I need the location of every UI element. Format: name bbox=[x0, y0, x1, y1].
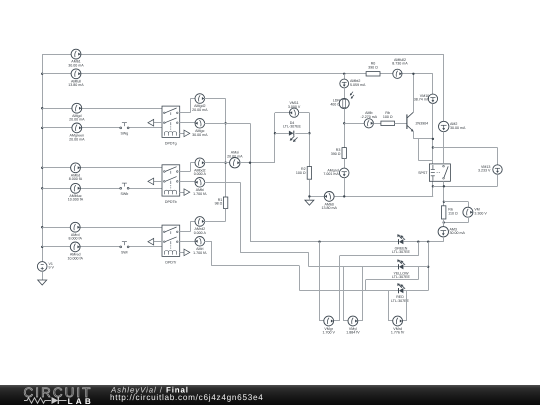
svg-text:LTL-307EE: LTL-307EE bbox=[392, 275, 411, 279]
svg-text:100 Ω: 100 Ω bbox=[383, 115, 393, 119]
svg-text:8.000 fA: 8.000 fA bbox=[69, 237, 83, 241]
svg-text:SPST: SPST bbox=[418, 171, 428, 175]
svg-text:9 V: 9 V bbox=[49, 266, 55, 270]
svg-text:0.000 A: 0.000 A bbox=[194, 231, 207, 235]
svg-text:1.776 fV: 1.776 fV bbox=[391, 331, 405, 335]
svg-text:390 Ω: 390 Ω bbox=[331, 152, 341, 156]
svg-text:20.00 mA: 20.00 mA bbox=[69, 118, 85, 122]
svg-text:30.00 mA: 30.00 mA bbox=[192, 133, 208, 137]
svg-text:3.233 V: 3.233 V bbox=[478, 169, 491, 173]
svg-text:20.00 mA: 20.00 mA bbox=[227, 154, 243, 158]
svg-text:10.000 fA: 10.000 fA bbox=[68, 198, 84, 202]
svg-text:DPDTr: DPDTr bbox=[165, 260, 177, 264]
svg-text:20.00 mA: 20.00 mA bbox=[192, 108, 208, 112]
svg-text:3.300 V: 3.300 V bbox=[474, 212, 487, 216]
svg-text:30.00 mA: 30.00 mA bbox=[450, 231, 466, 235]
svg-text:30.00 mA: 30.00 mA bbox=[68, 64, 84, 68]
svg-text:-2.270 mA: -2.270 mA bbox=[361, 115, 378, 119]
svg-text:3.000 V: 3.000 V bbox=[288, 105, 301, 109]
svg-text:SWg: SWg bbox=[121, 132, 129, 136]
svg-text:LAB: LAB bbox=[68, 396, 94, 405]
svg-text:DPDTg: DPDTg bbox=[165, 141, 177, 145]
svg-text:13.80 mA: 13.80 mA bbox=[68, 83, 84, 87]
svg-text:30.00 mA: 30.00 mA bbox=[450, 126, 466, 130]
svg-text:10.000 fA: 10.000 fA bbox=[68, 256, 84, 260]
svg-text:8.000 fA: 8.000 fA bbox=[69, 177, 83, 181]
svg-text:SWr: SWr bbox=[121, 251, 129, 255]
svg-text:400 Ω: 400 Ω bbox=[330, 102, 340, 106]
svg-text:http://circuitlab.com/c6j4z4gn: http://circuitlab.com/c6j4z4gn653e4 bbox=[110, 393, 264, 402]
svg-text:38.74 mV: 38.74 mV bbox=[414, 98, 430, 102]
svg-text:390 Ω: 390 Ω bbox=[368, 66, 378, 70]
svg-text:8.730 mA: 8.730 mA bbox=[392, 62, 408, 66]
svg-text:SWb: SWb bbox=[121, 192, 129, 196]
svg-text:LTL-307EE: LTL-307EE bbox=[283, 125, 302, 129]
svg-text:0.000 A: 0.000 A bbox=[194, 172, 207, 176]
svg-text:20.00 mA: 20.00 mA bbox=[69, 137, 85, 141]
svg-text:LTL-307EE: LTL-307EE bbox=[392, 250, 411, 254]
svg-text:2N3904: 2N3904 bbox=[416, 121, 429, 125]
svg-text:1.884 fV: 1.884 fV bbox=[346, 331, 360, 335]
svg-text:7.001 mA: 7.001 mA bbox=[323, 172, 339, 176]
svg-text:1.700 fA: 1.700 fA bbox=[193, 251, 207, 255]
svg-text:98 Ω: 98 Ω bbox=[215, 202, 223, 206]
svg-text:DPDTb: DPDTb bbox=[165, 200, 177, 204]
svg-text:1.700 V: 1.700 V bbox=[323, 331, 336, 335]
svg-text:110 Ω: 110 Ω bbox=[448, 211, 458, 215]
svg-text:1.700 fA: 1.700 fA bbox=[193, 192, 207, 196]
svg-text:13.80 mA: 13.80 mA bbox=[322, 206, 338, 210]
svg-text:5.059 mA: 5.059 mA bbox=[350, 83, 366, 87]
svg-text:100 Ω: 100 Ω bbox=[296, 171, 306, 175]
